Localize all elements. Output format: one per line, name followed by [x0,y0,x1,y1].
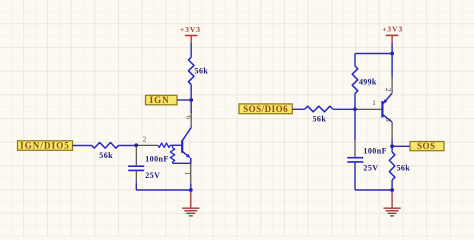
svg-text:56k: 56k [99,151,113,160]
svg-text:IGN/DIO5: IGN/DIO5 [20,141,70,151]
svg-text:1: 1 [183,171,191,175]
svg-text:+3V3: +3V3 [180,25,201,34]
svg-text:2: 2 [384,88,393,92]
svg-text:6: 6 [184,115,193,119]
svg-text:25V: 25V [363,163,378,172]
svg-text:+3V3: +3V3 [382,25,403,34]
svg-text:SOS/DIO6: SOS/DIO6 [243,104,288,114]
svg-text:499k: 499k [359,77,377,86]
svg-text:3: 3 [384,118,393,122]
svg-text:56k: 56k [312,115,326,124]
svg-text:25V: 25V [145,171,160,180]
svg-text:56k: 56k [397,163,411,172]
svg-text:SOS: SOS [417,141,436,151]
svg-text:56k: 56k [195,67,209,76]
svg-text:100nF: 100nF [363,146,387,155]
svg-text:2: 2 [143,135,147,143]
svg-text:1: 1 [372,99,376,107]
svg-text:100nF: 100nF [145,154,169,163]
svg-text:IGN: IGN [150,95,170,105]
